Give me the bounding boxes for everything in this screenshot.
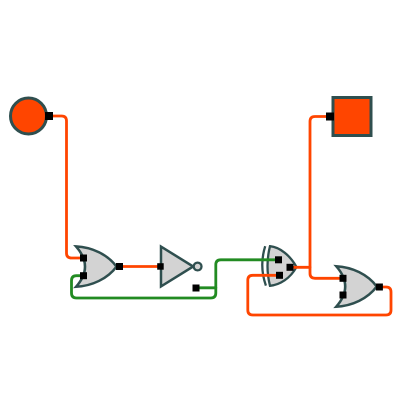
input source IN1 (circle) bbox=[11, 98, 47, 134]
pin G3.inB bbox=[276, 272, 283, 279]
pin G2.in bbox=[157, 263, 164, 270]
pin OUT1.in bbox=[326, 113, 334, 121]
pin G2.out bbox=[193, 285, 200, 292]
pin IN1.out bbox=[45, 112, 53, 120]
wire net1: IN1 to G1 input A (orange) bbox=[49, 116, 84, 258]
wire net3b: G2 output stub to junction (green) bbox=[197, 286, 216, 289]
wire net4a: OUT1 down to G4 input A (orange) bbox=[310, 117, 344, 279]
pin G4.out bbox=[376, 284, 383, 291]
or-gate G1 bbox=[76, 246, 117, 286]
pin G1.inA bbox=[80, 255, 87, 262]
pin G4.inB bbox=[340, 292, 347, 299]
wire net2: G1 output to G2 input (orange) bbox=[119, 265, 160, 268]
wire net4b: G3 output stub to junction (orange) bbox=[290, 266, 310, 269]
pin G1.inB bbox=[80, 272, 87, 279]
pin G3.out bbox=[287, 264, 294, 271]
or-gate G4 bbox=[336, 266, 377, 307]
not-gate G2 bbox=[161, 247, 202, 287]
output indicator OUT1 (square) bbox=[333, 98, 371, 136]
xor-gate G3 bbox=[262, 246, 296, 286]
wire net5: G4 output feedback to G3 input B (orange) bbox=[248, 275, 391, 315]
pin G4.inA bbox=[340, 275, 347, 282]
pin G1.out bbox=[116, 263, 123, 270]
pin G3.inA bbox=[275, 256, 282, 263]
wire net3a: G2 output loop to G1 input B and G3 input A (green) bbox=[72, 260, 279, 298]
